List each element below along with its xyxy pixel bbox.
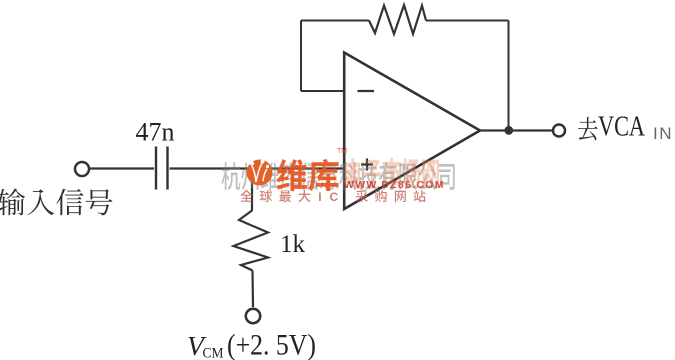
svg-text:IC: IC <box>318 190 346 204</box>
svg-text:(+2. 5V): (+2. 5V) <box>227 329 316 360</box>
svg-text:47n: 47n <box>136 118 175 147</box>
svg-text:WWW.DZ86.COM: WWW.DZ86.COM <box>344 179 445 191</box>
svg-text:CM: CM <box>203 346 224 360</box>
svg-text:TM: TM <box>337 148 347 155</box>
svg-text:VCA: VCA <box>598 112 646 143</box>
svg-text:IN: IN <box>653 124 673 143</box>
svg-text:1k: 1k <box>280 231 306 258</box>
